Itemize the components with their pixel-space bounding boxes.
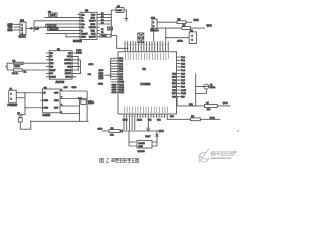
wire — [217, 105, 230, 107]
svg-text:0.1uF: 0.1uF — [50, 15, 56, 17]
wire — [77, 56, 81, 73]
svg-text:AGND2: AGND2 — [64, 62, 72, 65]
svg-text:8: 8 — [61, 89, 62, 91]
svg-text:T1IN: T1IN — [91, 30, 96, 32]
capacitor C8 — [138, 38, 144, 42]
wire — [16, 97, 25, 99]
resistor R1 — [13, 61, 24, 65]
wire — [191, 27, 205, 29]
crystal Y2 — [189, 30, 196, 43]
capacitor C9 battery — [17, 113, 23, 122]
capacitor C1 — [151, 28, 156, 41]
svg-text:A0D0: A0D0 — [99, 69, 104, 72]
svg-text:P2.9: P2.9 — [181, 87, 185, 89]
wire — [124, 10, 126, 19]
svg-text:2: 2 — [153, 26, 155, 28]
svg-text:RTL: RTL — [170, 116, 175, 118]
capacitor C5 — [48, 28, 59, 31]
svg-text:3: 3 — [192, 36, 194, 38]
wire — [177, 105, 205, 107]
node labels right of U3 — [101, 12, 104, 34]
svg-text:GND: GND — [72, 87, 77, 89]
MCU outside-left labels — [112, 84, 116, 94]
wire — [157, 27, 182, 29]
wire — [80, 91, 88, 121]
svg-text:GdB: GdB — [67, 66, 72, 68]
svg-text:1: 1 — [153, 22, 155, 24]
capacitor C3 — [48, 11, 57, 17]
crystal module Y3 — [137, 141, 152, 154]
svg-text:XT2: XT2 — [172, 90, 175, 92]
capacitor C6 — [111, 6, 124, 12]
svg-text:C2+: C2+ — [81, 24, 86, 26]
svg-text:VS3: VS3 — [172, 96, 176, 98]
svg-text:GND: GND — [98, 129, 103, 131]
svg-text:VCC: VCC — [210, 118, 215, 120]
MCU left pin labels — [119, 58, 124, 94]
svg-text:2: 2 — [61, 112, 62, 114]
wire — [129, 142, 137, 146]
svg-text:P2.2: P2.2 — [181, 63, 185, 65]
wire bus vertical — [78, 56, 80, 73]
svg-text:2: 2 — [22, 27, 24, 29]
watermark logo — [199, 149, 210, 163]
MCU bottom pin number ticks — [125, 115, 167, 117]
node junction — [195, 86, 196, 87]
svg-text:DI: DI — [50, 56, 52, 58]
svg-text:VCC: VCC — [223, 103, 228, 105]
svg-text:AS1117: AS1117 — [43, 114, 52, 117]
wire — [152, 131, 157, 146]
node junction — [148, 130, 149, 131]
crystal Y4 — [196, 84, 216, 89]
node junction — [24, 92, 25, 93]
wire — [100, 14, 112, 24]
MCU bottom pins wires — [124, 114, 167, 118]
wire — [195, 74, 197, 106]
svg-text:TD2: TD2 — [172, 80, 176, 82]
node junction — [110, 63, 111, 64]
MCU left pins wires — [111, 58, 118, 92]
wire — [166, 37, 189, 39]
svg-text:R1OUT: R1OUT — [89, 27, 97, 29]
svg-text:TD1: TD1 — [172, 73, 176, 75]
net label column — [99, 69, 104, 80]
svg-text:GND: GND — [91, 18, 96, 20]
MCU right pins wires — [177, 57, 181, 97]
node junction — [79, 105, 80, 106]
svg-text:VSS: VSS — [157, 120, 161, 122]
svg-text:VCC: VCC — [194, 19, 199, 22]
wire — [60, 105, 80, 107]
MCU right inside labels — [172, 73, 177, 98]
svg-text:MAX232: MAX232 — [73, 40, 83, 43]
node junction — [156, 130, 157, 131]
svg-text:RD1: RD1 — [172, 77, 176, 79]
node junction — [30, 121, 31, 122]
svg-text:AD7705: AD7705 — [56, 81, 65, 84]
svg-text:MHZ: MHZ — [139, 146, 144, 148]
ADC right pin labels inside — [64, 53, 72, 79]
resistor R3 — [109, 128, 120, 136]
svg-text:PD: PD — [88, 74, 91, 76]
wire — [110, 10, 112, 37]
capacitor C11 — [145, 118, 151, 139]
svg-text:GND: GND — [44, 108, 49, 110]
svg-text:7: 7 — [61, 97, 62, 99]
svg-text:P2.3: P2.3 — [181, 67, 185, 69]
IC U3 MAX232 — [78, 10, 100, 40]
MCU right pin labels — [181, 57, 186, 99]
MCU bottom pin name smudges — [124, 107, 167, 114]
node junction — [79, 113, 80, 114]
svg-text:RST: RST — [181, 96, 186, 98]
wire — [167, 118, 190, 120]
svg-text:VREF: VREF — [50, 70, 56, 72]
svg-text:VCC: VCC — [159, 130, 164, 133]
svg-text:PWERBT: PWERBT — [8, 105, 18, 107]
svg-text:P1.4: P1.4 — [112, 92, 116, 94]
wire — [46, 33, 66, 35]
svg-text:P2.5: P2.5 — [181, 73, 185, 75]
wire — [14, 24, 21, 30]
wire — [22, 69, 46, 71]
svg-text:4MHz: 4MHz — [177, 41, 183, 43]
node junction — [6, 66, 8, 68]
wire — [23, 62, 46, 64]
capacitor C10 — [78, 98, 95, 105]
svg-text:P2.10: P2.10 — [181, 90, 186, 92]
node junction — [78, 69, 79, 70]
node junction — [24, 107, 25, 108]
node junction — [165, 37, 166, 38]
svg-text:GND: GND — [54, 100, 59, 102]
net labels below MCU — [123, 120, 162, 122]
resistor R7 — [205, 102, 218, 107]
wire loop — [66, 34, 80, 37]
svg-text:RXD: RXD — [8, 29, 13, 32]
resistor R6 — [182, 25, 191, 29]
wire — [60, 90, 87, 92]
capacitor C7 — [108, 27, 113, 30]
component series bead — [120, 130, 122, 132]
svg-text:P2.11: P2.11 — [181, 93, 186, 95]
ADC left pin labels — [50, 53, 56, 79]
connector J2 power — [8, 89, 18, 107]
svg-text:COA: COA — [67, 55, 72, 58]
svg-text:HC49S: HC49S — [138, 151, 146, 153]
ADC right pins wires — [72, 53, 76, 77]
caption 图2 系统硬件电路图 — [100, 158, 139, 164]
svg-text:22pF: 22pF — [145, 136, 151, 138]
svg-text:V-: V- — [81, 30, 83, 32]
wire — [46, 23, 80, 25]
svg-text:GND: GND — [88, 64, 93, 66]
resistor R8 — [190, 116, 200, 121]
wire — [34, 20, 80, 22]
wire — [45, 17, 81, 19]
MCU top pin number ticks — [126, 43, 168, 45]
node junction — [80, 73, 81, 74]
svg-text:110uF: 110uF — [88, 103, 94, 105]
svg-text:U2: U2 — [143, 68, 147, 71]
wire bus vertical — [110, 58, 112, 78]
svg-text:VM: VM — [50, 66, 53, 68]
svg-text:P2.0: P2.0 — [181, 57, 185, 59]
wire ground rail — [31, 120, 89, 122]
artifact dot — [237, 130, 239, 132]
svg-text:X1 X2: X1 X2 — [137, 120, 142, 122]
svg-text:C1+: C1+ — [81, 14, 86, 16]
svg-text:P2.8: P2.8 — [181, 83, 185, 85]
svg-text:MCN4: MCN4 — [19, 35, 26, 38]
wire — [128, 131, 130, 146]
wire — [200, 118, 220, 120]
svg-text:R7: R7 — [206, 102, 210, 104]
svg-text:T1: T1 — [101, 29, 104, 31]
node junction — [195, 105, 196, 106]
svg-text:VCC: VCC — [91, 14, 96, 16]
svg-text:C1-: C1- — [81, 21, 85, 23]
svg-text:AGND: AGND — [14, 65, 20, 68]
svg-text:GND: GND — [44, 100, 49, 102]
svg-text:P2.6: P2.6 — [181, 77, 185, 79]
svg-text:C2-: C2- — [81, 27, 85, 29]
wire — [165, 28, 167, 41]
wire — [20, 93, 25, 115]
wire — [105, 74, 111, 76]
svg-text:6: 6 — [61, 104, 62, 106]
IC U2 MCU — [118, 52, 177, 114]
wire — [186, 21, 192, 23]
IC U4 reset — [151, 17, 159, 31]
wire — [111, 36, 128, 49]
wire — [157, 21, 177, 23]
watermark text line1 — [211, 151, 236, 155]
svg-text:2: 2 — [192, 40, 194, 42]
svg-text:B/S: B/S — [68, 53, 72, 55]
wire — [196, 89, 207, 93]
svg-text:R2OUT: R2OUT — [89, 37, 97, 39]
wire — [7, 63, 13, 70]
svg-text:1: 1 — [11, 94, 13, 96]
svg-text:1/TOO: 1/TOO — [65, 77, 71, 79]
svg-text:T2OUT: T2OUT — [81, 34, 88, 36]
svg-text:R1IN: R1IN — [91, 24, 96, 26]
svg-text:P2.7: P2.7 — [181, 80, 185, 82]
svg-text:A1D1: A1D1 — [99, 72, 104, 75]
svg-text:A3D3: A3D3 — [99, 77, 104, 80]
svg-text:www.elecfans.com: www.elecfans.com — [211, 157, 232, 160]
svg-text:T1OUT: T1OUT — [89, 21, 96, 23]
svg-text:T2IN: T2IN — [91, 34, 96, 36]
wire — [34, 26, 80, 28]
MCU top pin name smudges — [125, 53, 168, 60]
resistor R2 — [12, 69, 27, 75]
svg-text:10k: 10k — [110, 134, 114, 136]
diode mark — [156, 134, 159, 137]
svg-text:AVDD2: AVDD2 — [65, 69, 72, 72]
node junction — [110, 68, 111, 69]
wire — [33, 21, 35, 32]
svg-text:AGND1: AGND1 — [64, 59, 72, 62]
svg-text:B 16A: B 16A — [76, 52, 82, 55]
svg-text:RST: RST — [172, 93, 177, 95]
capacitor C4 — [46, 25, 57, 28]
svg-text:1uF: 1uF — [35, 29, 39, 31]
ground — [124, 19, 128, 22]
ADC left pins wires — [46, 53, 49, 77]
IC U1 ADC — [49, 49, 72, 84]
svg-text:1: 1 — [22, 25, 24, 27]
wire arrow — [26, 27, 34, 29]
wire — [60, 98, 87, 100]
IC U5 regulator — [40, 87, 60, 117]
node junction — [110, 75, 111, 76]
wire — [20, 121, 31, 129]
svg-text:10k: 10k — [207, 109, 211, 111]
svg-text:OUT: OUT — [54, 93, 59, 95]
wire — [102, 130, 109, 132]
svg-text:3: 3 — [22, 30, 24, 32]
wire — [48, 29, 80, 31]
svg-text:P2.4: P2.4 — [181, 70, 185, 72]
svg-text:R2IN: R2IN — [81, 37, 86, 39]
wire — [60, 113, 80, 115]
svg-text:0.1uF: 0.1uF — [117, 10, 123, 12]
wire — [176, 97, 178, 106]
svg-text:OUT: OUT — [54, 108, 59, 110]
svg-text:GND: GND — [98, 83, 103, 85]
resistor R5 — [177, 19, 186, 23]
component BT1 — [100, 34, 111, 37]
svg-text:VCC: VCC — [207, 24, 212, 27]
svg-text:MCLK: MCLK — [50, 77, 56, 79]
crystal Y1 — [138, 33, 144, 37]
MCU bottom long stubs — [124, 118, 135, 130]
svg-text:IN: IN — [44, 93, 47, 95]
svg-text:2: 2 — [11, 99, 13, 101]
svg-text:XT1: XT1 — [172, 87, 175, 89]
svg-text:JP1: JP1 — [20, 19, 25, 22]
svg-text:B1: B1 — [24, 71, 27, 73]
svg-text:VD: VD — [50, 53, 53, 55]
svg-text:AVDD1: AVDD1 — [65, 72, 72, 75]
svg-text:P0.14: P0.14 — [119, 92, 124, 94]
svg-text:DC: DC — [50, 73, 53, 75]
svg-text:32kHz: 32kHz — [210, 87, 215, 89]
svg-text:DO: DO — [50, 60, 53, 62]
svg-text:V+: V+ — [81, 18, 84, 20]
node junction — [80, 66, 81, 67]
MCU top pins wires — [125, 41, 168, 52]
node junction — [78, 63, 79, 64]
svg-text:AIN: AIN — [50, 62, 54, 65]
wire — [25, 107, 43, 109]
wire — [16, 92, 42, 94]
connector J1 — [19, 19, 26, 38]
wire — [120, 130, 158, 132]
svg-text:LPC2119: LPC2119 — [141, 83, 151, 86]
svg-text:RD2: RD2 — [172, 83, 176, 85]
svg-text:A2D2: A2D2 — [99, 74, 104, 77]
svg-text:+5V: +5V — [64, 87, 68, 89]
svg-text:R2 1k: R2 1k — [12, 73, 19, 75]
node junction — [128, 130, 129, 131]
svg-text:OSC12: OSC12 — [139, 143, 145, 145]
node junction — [195, 93, 196, 94]
svg-text:P2.1: P2.1 — [181, 60, 185, 62]
